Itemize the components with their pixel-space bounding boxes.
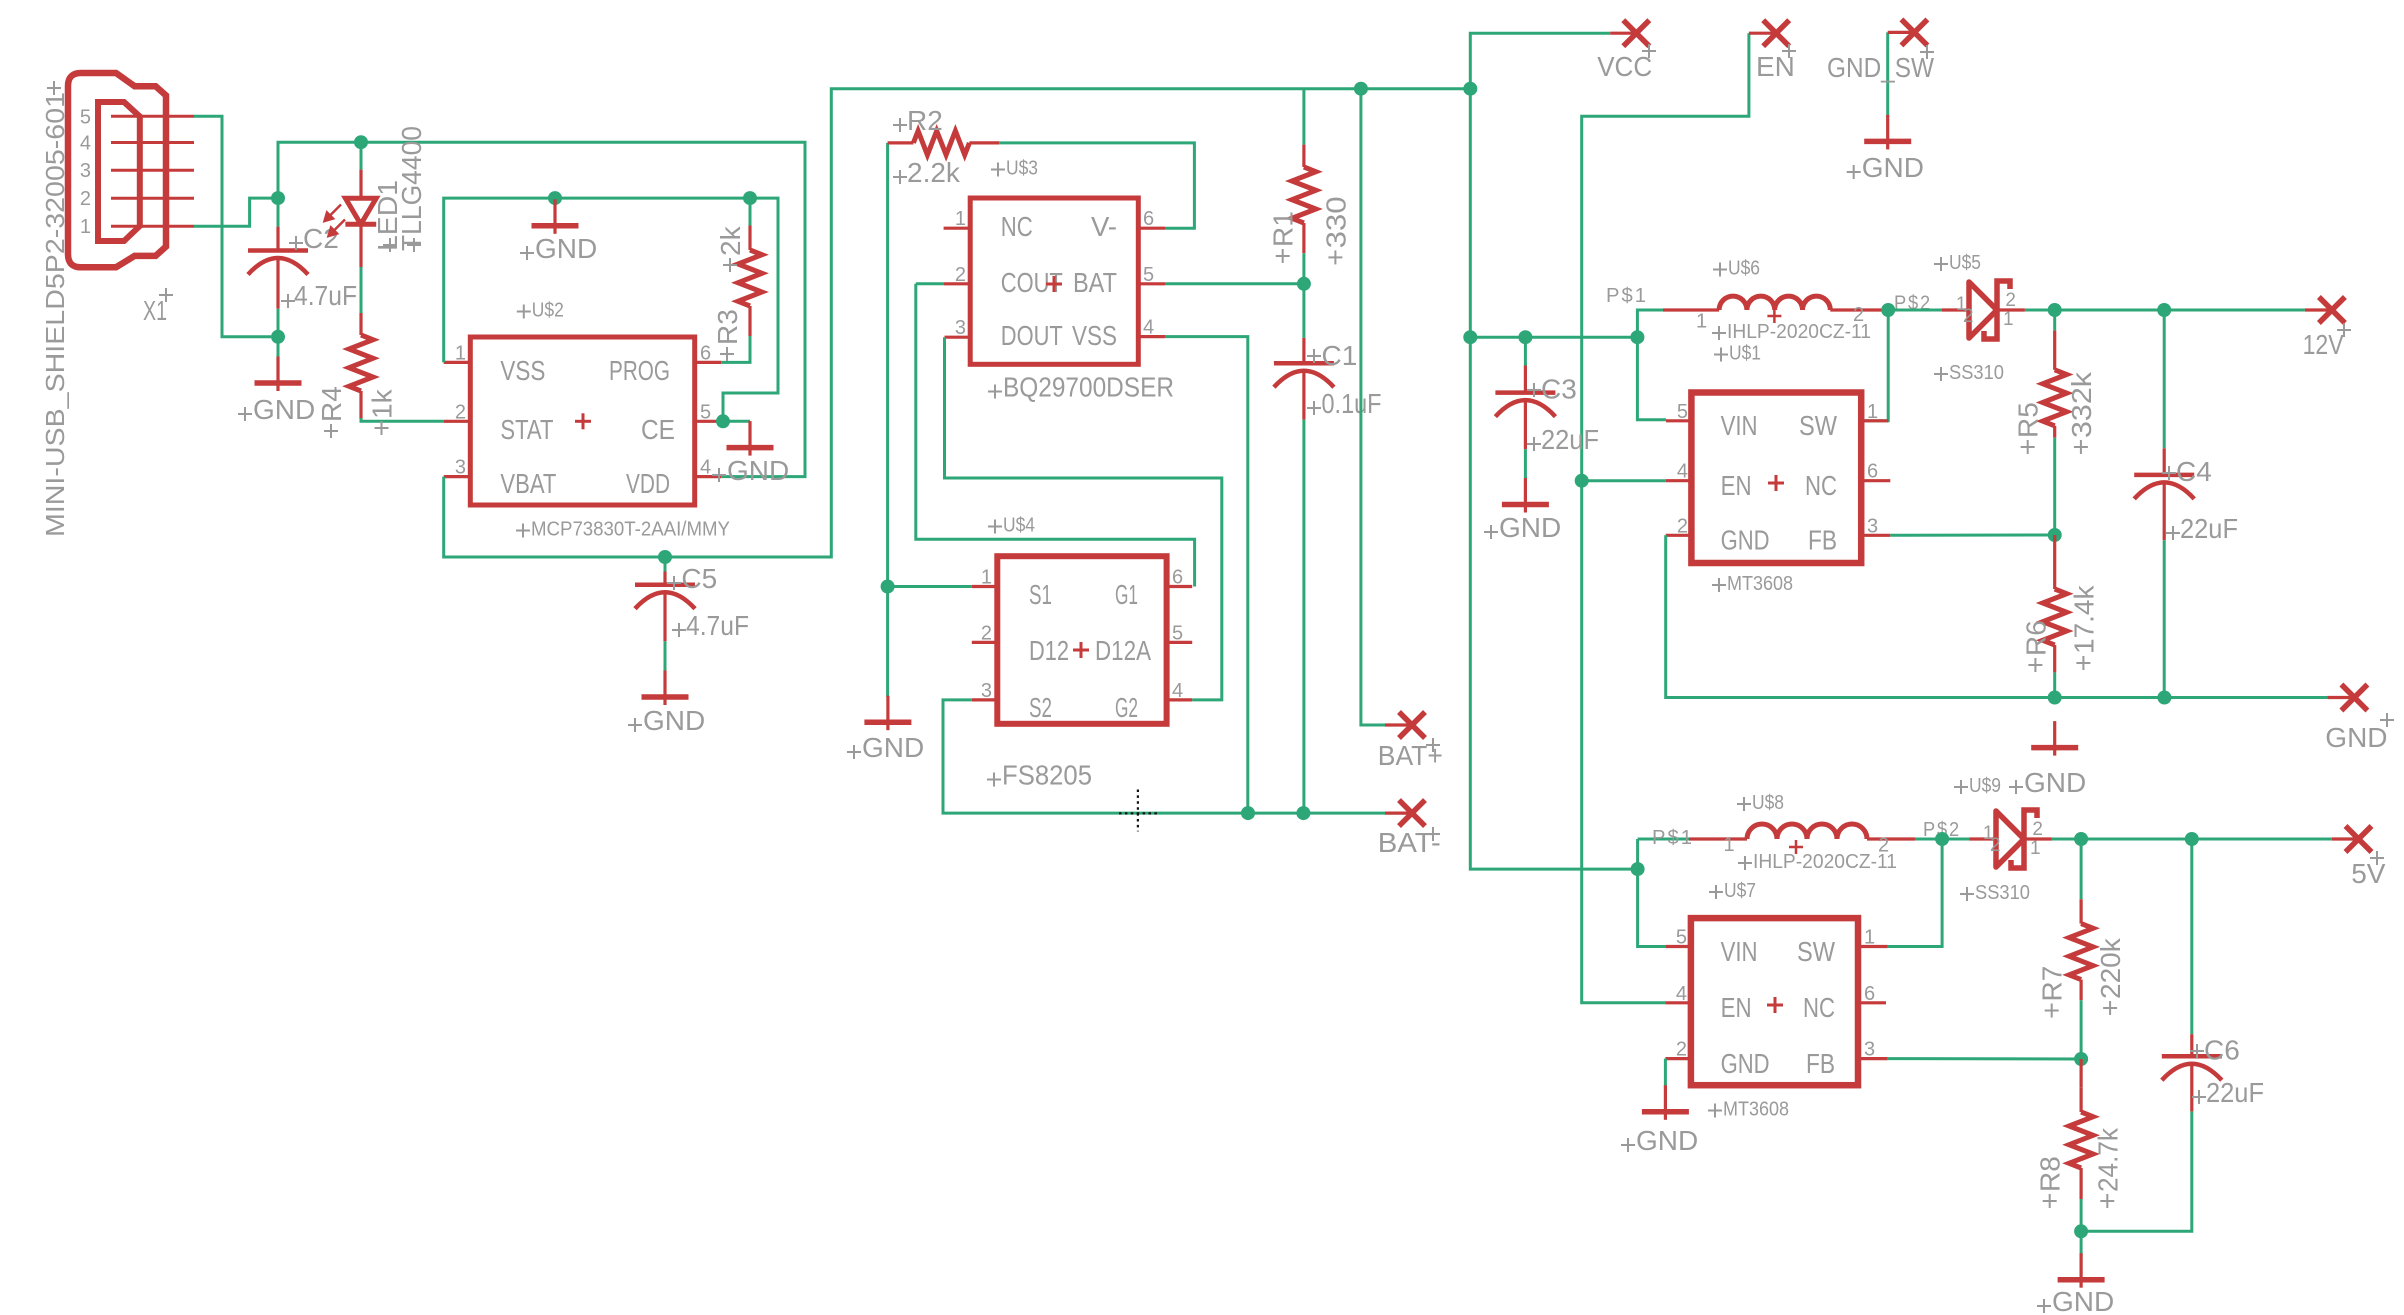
- wire C2 to GND: [277, 309, 280, 364]
- U$2 pin 3 VBAT stub: [444, 475, 471, 478]
- svg-text:4.7uF: 4.7uF: [686, 610, 749, 641]
- U$3 pin 2 COUT stub: [944, 282, 971, 285]
- svg-text:C2: C2: [303, 223, 339, 254]
- svg-text:2k: 2k: [715, 225, 746, 256]
- GND_SW pin stub: [1888, 31, 1915, 34]
- wire R3 to PROG: [721, 336, 750, 362]
- junction R8/C6 bottom: [2074, 1224, 2088, 1238]
- svg-text:STAT: STAT: [500, 414, 553, 445]
- U$7 name label: [1709, 885, 1723, 899]
- svg-text:NC: NC: [1001, 211, 1033, 242]
- resistor R3: [738, 250, 762, 306]
- U$1 pin 4 EN stub: [1666, 479, 1692, 482]
- svg-text:C6: C6: [2204, 1035, 2240, 1066]
- R1 bottom lead: [1302, 223, 1305, 253]
- svg-text:GND: GND: [2024, 767, 2086, 798]
- wire VBAT bus: [444, 89, 1471, 557]
- R1 name: [1276, 249, 1290, 263]
- VCC pin stub: [1610, 32, 1636, 35]
- C5 bottom lead: [663, 594, 666, 641]
- LED1 anode lead: [359, 170, 362, 199]
- EN pin stub: [1749, 32, 1776, 35]
- svg-text:FB: FB: [1806, 1048, 1835, 1079]
- svg-text:2.2k: 2.2k: [907, 157, 961, 188]
- C3 bottom lead: [1524, 402, 1527, 449]
- U$3 pin 1 NC stub: [944, 227, 971, 230]
- resistor R8: [2069, 1112, 2093, 1168]
- svg-text:330: 330: [1320, 196, 1351, 248]
- U$4 pin 3 S2 stub: [972, 698, 998, 701]
- svg-text:2: 2: [80, 188, 91, 210]
- U$1 pin 5 VIN stub: [1666, 419, 1691, 422]
- VCC label: [1642, 44, 1656, 58]
- U$3 value BQ29700DSER: [988, 385, 1002, 399]
- wire C5 to GND: [664, 641, 667, 670]
- IC U$4 FS8205 body: [997, 556, 1166, 724]
- wire U$3 VSS to BAT- line: [1165, 337, 1248, 813]
- svg-text:GND: GND: [253, 394, 315, 425]
- wire COUT stub link: [916, 282, 944, 285]
- wire LED1 to R4: [360, 267, 363, 313]
- GND label under C3: [1484, 525, 1498, 539]
- junction bus/BAT+: [1354, 82, 1368, 96]
- BAT- pin stub: [1385, 811, 1412, 814]
- pin BAT-: [1399, 800, 1425, 826]
- U$5 value SS310: [1934, 367, 1948, 381]
- junction R3 top: [743, 191, 757, 205]
- junction C4: [2157, 303, 2171, 317]
- svg-text:SS310: SS310: [1949, 362, 2004, 384]
- svg-text:EN: EN: [1756, 51, 1795, 82]
- U$1 name label: [1714, 348, 1728, 362]
- svg-text:VDD: VDD: [626, 468, 670, 499]
- R6 name: [2028, 658, 2042, 672]
- wire riser to U$6 pin1: [1637, 310, 1663, 337]
- ground on VSS line: [532, 199, 579, 234]
- svg-text:332k: 332k: [2066, 371, 2097, 438]
- C6 value 22uF: [2192, 1090, 2206, 1104]
- svg-text:GND_SW: GND_SW: [1827, 52, 1934, 83]
- wire SW2 riser: [1888, 839, 1942, 947]
- U$1 pin 1 SW stub: [1861, 419, 1888, 422]
- svg-text:U$9: U$9: [1969, 775, 2001, 797]
- wire C2 top: [277, 198, 280, 227]
- R7 name: [2045, 1004, 2059, 1018]
- svg-text:GND: GND: [643, 705, 705, 736]
- C3 value 22uF: [1527, 437, 1541, 451]
- wire SW1 riser: [1861, 310, 1888, 421]
- pin BAT+: [1399, 712, 1425, 738]
- svg-text:0.1uF: 0.1uF: [1322, 388, 1382, 419]
- ground under C2: [255, 357, 302, 392]
- wire GND line boost1: [1666, 535, 2328, 697]
- svg-text:1: 1: [1696, 311, 1707, 333]
- resistor R1: [1292, 167, 1316, 223]
- svg-text:4: 4: [80, 133, 91, 155]
- svg-text:3: 3: [955, 317, 966, 339]
- junction FB1: [2048, 528, 2062, 542]
- GND pin stub: [2327, 696, 2354, 699]
- pin 12V: [2319, 297, 2345, 323]
- U$6 pin 1 lead: [1663, 308, 1719, 311]
- svg-text:U$4: U$4: [1003, 515, 1035, 537]
- svg-text:22uF: 22uF: [1541, 424, 1599, 455]
- U$6 name label: [1713, 263, 1727, 277]
- svg-text:MINI-USB_SHIELD5P2-32005-601: MINI-USB_SHIELD5P2-32005-601: [40, 92, 70, 537]
- wire VBAT rail down to 5V section: [1470, 89, 1637, 869]
- C4 top lead: [2163, 448, 2166, 475]
- svg-text:3: 3: [80, 160, 91, 182]
- wire L1 to D1: [1884, 309, 1942, 312]
- U$9 cathode lead: [2024, 837, 2052, 840]
- svg-text:R5: R5: [2013, 402, 2044, 438]
- svg-text:PROG: PROG: [609, 355, 670, 386]
- svg-text:1: 1: [1724, 834, 1735, 856]
- GND_SW label: [1920, 45, 1934, 59]
- svg-text:R3: R3: [712, 309, 743, 345]
- 5V pin stub: [2332, 837, 2359, 840]
- wire C5 top: [664, 557, 667, 572]
- U$2 name label: [517, 305, 531, 319]
- capacitor C1: [1274, 361, 1334, 366]
- junction FB2: [2074, 1052, 2088, 1066]
- wire L2 to D2: [1915, 838, 1969, 841]
- svg-text:5: 5: [1172, 622, 1183, 644]
- svg-text:BAT-: BAT-: [1378, 827, 1441, 858]
- GND label on VSS line: [520, 246, 534, 260]
- svg-text:2: 2: [1990, 835, 2001, 856]
- C2 value 4.7uF: [281, 294, 295, 308]
- svg-text:6: 6: [1867, 461, 1878, 483]
- R4 value 1k: [375, 421, 389, 435]
- svg-text:12V: 12V: [2303, 329, 2344, 360]
- svg-text:GND: GND: [535, 233, 597, 264]
- svg-text:BAT: BAT: [1073, 267, 1117, 298]
- svg-text:R7: R7: [2037, 966, 2068, 1002]
- svg-text:2: 2: [2032, 819, 2043, 840]
- X1 pin 5 lead: [111, 115, 194, 118]
- svg-text:GND: GND: [1499, 512, 1561, 543]
- U$3 origin cross: [1046, 276, 1062, 292]
- svg-text:4: 4: [1172, 680, 1183, 702]
- C5 name: [667, 576, 681, 590]
- C3 top lead: [1524, 366, 1527, 393]
- U$8 pin 1 lead: [1689, 837, 1747, 840]
- LED1 cathode lead: [359, 224, 362, 267]
- wire 12V line: [2025, 309, 2305, 312]
- U$2 pin 2 STAT stub: [444, 420, 471, 423]
- svg-text:2: 2: [1853, 304, 1864, 326]
- svg-text:VSS: VSS: [500, 355, 545, 386]
- C2 bottom lead: [276, 260, 279, 309]
- wire 5V line: [2052, 838, 2332, 841]
- svg-text:5: 5: [1676, 927, 1687, 949]
- svg-text:BQ29700DSER: BQ29700DSER: [1003, 372, 1174, 403]
- svg-text:VSS: VSS: [1072, 320, 1117, 351]
- svg-text:3: 3: [981, 680, 992, 702]
- U$4 name label: [988, 520, 1002, 534]
- R1 top lead: [1302, 145, 1305, 167]
- diode U$5 SS310: [1969, 282, 1997, 338]
- wire R4 to U$2 STAT: [361, 418, 444, 421]
- R7 bottom lead: [2080, 980, 2083, 1001]
- svg-text:S1: S1: [1029, 579, 1052, 610]
- U$7 value MT3608: [1708, 1104, 1722, 1118]
- R7 value 220k: [2103, 1001, 2117, 1015]
- ground under C5: [642, 671, 689, 706]
- GND pin label: [2380, 713, 2394, 727]
- svg-text:GND: GND: [1636, 1125, 1698, 1156]
- U$1 value MT3608: [1712, 578, 1726, 592]
- ground under C3: [1502, 478, 1549, 513]
- svg-text:SW: SW: [1799, 410, 1837, 441]
- svg-text:2: 2: [1676, 1039, 1687, 1061]
- capacitor C4: [2134, 473, 2194, 478]
- R5 top lead: [2053, 331, 2056, 370]
- R5 value 332k: [2074, 440, 2088, 454]
- svg-text:2: 2: [981, 622, 992, 644]
- U$3 pin 6 V- stub: [1138, 227, 1165, 230]
- X1 pin 1 lead: [111, 225, 194, 228]
- R4 bottom lead: [359, 391, 362, 419]
- svg-text:G2: G2: [1115, 692, 1138, 723]
- svg-text:U$3: U$3: [1006, 158, 1038, 180]
- U$8 value IHLP-2020CZ-11: [1738, 856, 1752, 870]
- svg-text:1: 1: [2030, 838, 2041, 859]
- junction VCC/LED1: [354, 135, 368, 149]
- wire U$3 BAT to R1: [1165, 282, 1304, 285]
- svg-text:R8: R8: [2035, 1156, 2066, 1192]
- C1 name: [1307, 349, 1321, 363]
- connector X1 inner opening: [98, 102, 140, 241]
- resistor R6: [2043, 589, 2067, 645]
- wire C4 to GND line: [2163, 540, 2166, 697]
- U$2 pin 1 VSS stub: [444, 361, 471, 364]
- R7 top lead: [2080, 899, 2083, 923]
- U$6 pin 2 lead: [1830, 308, 1884, 311]
- R5 bottom lead: [2053, 426, 2056, 438]
- R4 top lead: [359, 313, 362, 335]
- wire U$7 GND down: [1664, 1059, 1667, 1088]
- junction SW2: [1935, 832, 1949, 846]
- svg-text:C5: C5: [681, 563, 717, 594]
- GND label under U$7: [1621, 1138, 1635, 1152]
- svg-text:D12: D12: [1029, 635, 1069, 666]
- R6 value 17.4k: [2076, 656, 2090, 670]
- U$1 origin cross: [1768, 475, 1784, 491]
- ground under R6: [2031, 721, 2078, 756]
- wire to U$8 pin1: [1638, 838, 1689, 841]
- svg-text:1: 1: [1867, 401, 1878, 423]
- X1 pin 4 lead: [111, 141, 194, 144]
- svg-text:NC: NC: [1805, 470, 1837, 501]
- wire FB2: [1888, 1057, 2081, 1060]
- svg-text:220k: 220k: [2095, 937, 2126, 999]
- C6 name: [2190, 1044, 2204, 1058]
- svg-text:GND: GND: [2325, 722, 2387, 753]
- wire COUT to G1: [916, 284, 1195, 587]
- U$4 pin 5 D12A stub: [1167, 641, 1193, 644]
- svg-text:22uF: 22uF: [2180, 513, 2238, 544]
- wire R6 to GND line: [2053, 672, 2056, 697]
- svg-text:G1: G1: [1115, 579, 1138, 610]
- svg-text:17.4k: 17.4k: [2068, 585, 2099, 654]
- wire VIN upper horizontal: [1470, 336, 1637, 339]
- capacitor C5: [635, 582, 695, 587]
- wire GND_SW to ground: [1886, 32, 1889, 117]
- svg-text:2: 2: [1963, 306, 1974, 327]
- svg-text:X1: X1: [143, 295, 167, 326]
- C5 value 4.7uF: [672, 623, 686, 637]
- LED LED1 triangle: [345, 198, 376, 224]
- junction VIN rail upper: [1463, 330, 1477, 344]
- U$7 pin 2 GND stub: [1665, 1057, 1691, 1060]
- svg-text:EN: EN: [1721, 992, 1752, 1023]
- svg-text:MT3608: MT3608: [1727, 573, 1793, 595]
- inductor U$6 IHLP-2020CZ-11: [1719, 296, 1830, 310]
- U$2 pin 5 CE stub: [695, 420, 723, 423]
- U$7 origin cross: [1767, 997, 1783, 1013]
- resistor R4: [349, 335, 373, 391]
- svg-text:5: 5: [1143, 264, 1154, 286]
- svg-text:DOUT: DOUT: [1001, 320, 1063, 351]
- junction CE/GND: [716, 414, 730, 428]
- svg-text:3: 3: [1867, 515, 1878, 537]
- U$7 pin 3 FB stub: [1858, 1057, 1888, 1060]
- U$8 origin cross: [1789, 840, 1803, 854]
- svg-text:U$6: U$6: [1728, 258, 1760, 280]
- R2 left lead: [888, 141, 914, 144]
- EN label: [1782, 44, 1796, 58]
- U$7 pin 1 SW stub: [1858, 945, 1888, 948]
- BAT- label: [1426, 827, 1440, 841]
- wire top bus to R1: [1302, 89, 1305, 145]
- ground under U$7: [1642, 1085, 1689, 1120]
- svg-text:IHLP-2020CZ-11: IHLP-2020CZ-11: [1753, 851, 1897, 873]
- R6 top lead: [2053, 535, 2056, 589]
- IC U$3 BQ29700 body: [970, 198, 1138, 364]
- wire 12V to C4: [2163, 310, 2166, 448]
- svg-text:5: 5: [1677, 401, 1688, 423]
- svg-text:U$1: U$1: [1729, 343, 1761, 365]
- R2 name: [893, 118, 907, 132]
- svg-text:GND: GND: [727, 455, 789, 486]
- R3 name: [720, 347, 734, 361]
- svg-text:1: 1: [1864, 927, 1875, 949]
- GND label under C2: [238, 407, 252, 421]
- svg-text:1: 1: [955, 208, 966, 230]
- svg-text:6: 6: [1864, 983, 1875, 1005]
- svg-text:R1: R1: [1268, 211, 1299, 247]
- R2 value 2.2k: [893, 170, 907, 184]
- R8 bottom lead: [2080, 1168, 2083, 1199]
- svg-text:2: 2: [1878, 835, 1889, 857]
- U$6 value IHLP-2020CZ-11: [1712, 326, 1726, 340]
- svg-text:CE: CE: [641, 414, 675, 445]
- svg-text:24.7k: 24.7k: [2092, 1127, 2123, 1192]
- svg-text:GND: GND: [2052, 1286, 2114, 1315]
- U$4 pin 1 S1 stub: [972, 585, 998, 588]
- U$8 pin 2 lead: [1867, 837, 1915, 840]
- R3 top lead: [748, 226, 751, 251]
- svg-text:4: 4: [1676, 983, 1687, 1005]
- R8 value 24.7k: [2100, 1194, 2114, 1208]
- junction GND symbol tap: [548, 191, 562, 205]
- 12V label: [2337, 323, 2351, 337]
- junction C4/GND line: [2157, 691, 2171, 705]
- GND label at FS8205: [847, 745, 861, 759]
- svg-text:2: 2: [2005, 290, 2016, 311]
- capacitor C2: [248, 248, 308, 253]
- C1 value 0.1uF: [1307, 401, 1321, 415]
- svg-text:GND: GND: [862, 732, 924, 763]
- wire C1 to BAT- line: [1302, 420, 1305, 813]
- junction C6: [2185, 832, 2199, 846]
- wire S2 to BAT- line: [943, 700, 1385, 813]
- R6 bottom lead: [2053, 645, 2056, 672]
- GND label bottom: [2037, 1299, 2051, 1313]
- svg-text:3: 3: [1864, 1039, 1875, 1061]
- wire top bus to BAT+: [1361, 89, 1385, 725]
- wire R7 to FB2: [2080, 1000, 2083, 1059]
- svg-text:C4: C4: [2176, 456, 2212, 487]
- R8 name: [2043, 1194, 2057, 1208]
- wire 12V to R5: [2053, 310, 2056, 331]
- capacitor C3: [1495, 390, 1555, 395]
- R3 bottom lead: [748, 306, 751, 336]
- U$2 value MCP73830T-2AAI/MMY: [516, 524, 530, 538]
- svg-text:U$8: U$8: [1752, 792, 1784, 814]
- svg-text:S2: S2: [1029, 692, 1052, 723]
- svg-text:C1: C1: [1322, 340, 1358, 371]
- R2 right lead: [969, 141, 999, 144]
- junction S1/GND: [881, 580, 895, 594]
- U$4 origin cross: [1073, 642, 1089, 658]
- wire S1 node to GND: [886, 587, 889, 697]
- C6 top lead: [2190, 1034, 2193, 1056]
- R1 value 330: [1328, 250, 1342, 264]
- resistor R5: [2043, 370, 2067, 426]
- C6 bottom lead: [2190, 1066, 2193, 1111]
- U$5 name label: [1934, 257, 1948, 271]
- svg-text:5: 5: [80, 106, 91, 128]
- svg-text:VBAT: VBAT: [500, 468, 556, 499]
- X1 pin 3 lead: [111, 169, 194, 172]
- pin GND_SW: [1901, 19, 1927, 45]
- pin EN: [1763, 20, 1789, 46]
- svg-text:C3: C3: [1541, 374, 1577, 405]
- U$2 pin 4 VDD stub: [695, 475, 722, 478]
- junction R6/GND line: [2048, 691, 2062, 705]
- junction EN net: [1575, 474, 1589, 488]
- U$4 pin 6 G1 stub: [1167, 585, 1193, 588]
- svg-text:1: 1: [455, 342, 466, 364]
- svg-text:SS310: SS310: [1975, 882, 2030, 904]
- wire to VCC pin: [1470, 33, 1610, 88]
- svg-text:GND: GND: [1721, 1048, 1770, 1079]
- svg-text:P$1: P$1: [1606, 285, 1648, 307]
- wire to bottom ground: [2080, 1231, 2083, 1256]
- svg-text:FS8205: FS8205: [1002, 760, 1092, 791]
- C4 name: [2162, 466, 2176, 480]
- resistor R7: [2069, 924, 2093, 980]
- junction VSS/BAT- line: [1241, 806, 1255, 820]
- IC U$7 MT3608 body: [1691, 918, 1858, 1085]
- svg-text:U$7: U$7: [1724, 880, 1756, 902]
- R8 top lead: [2080, 1087, 2083, 1112]
- IC U$1 MT3608 body: [1691, 393, 1861, 564]
- svg-text:1: 1: [981, 567, 992, 589]
